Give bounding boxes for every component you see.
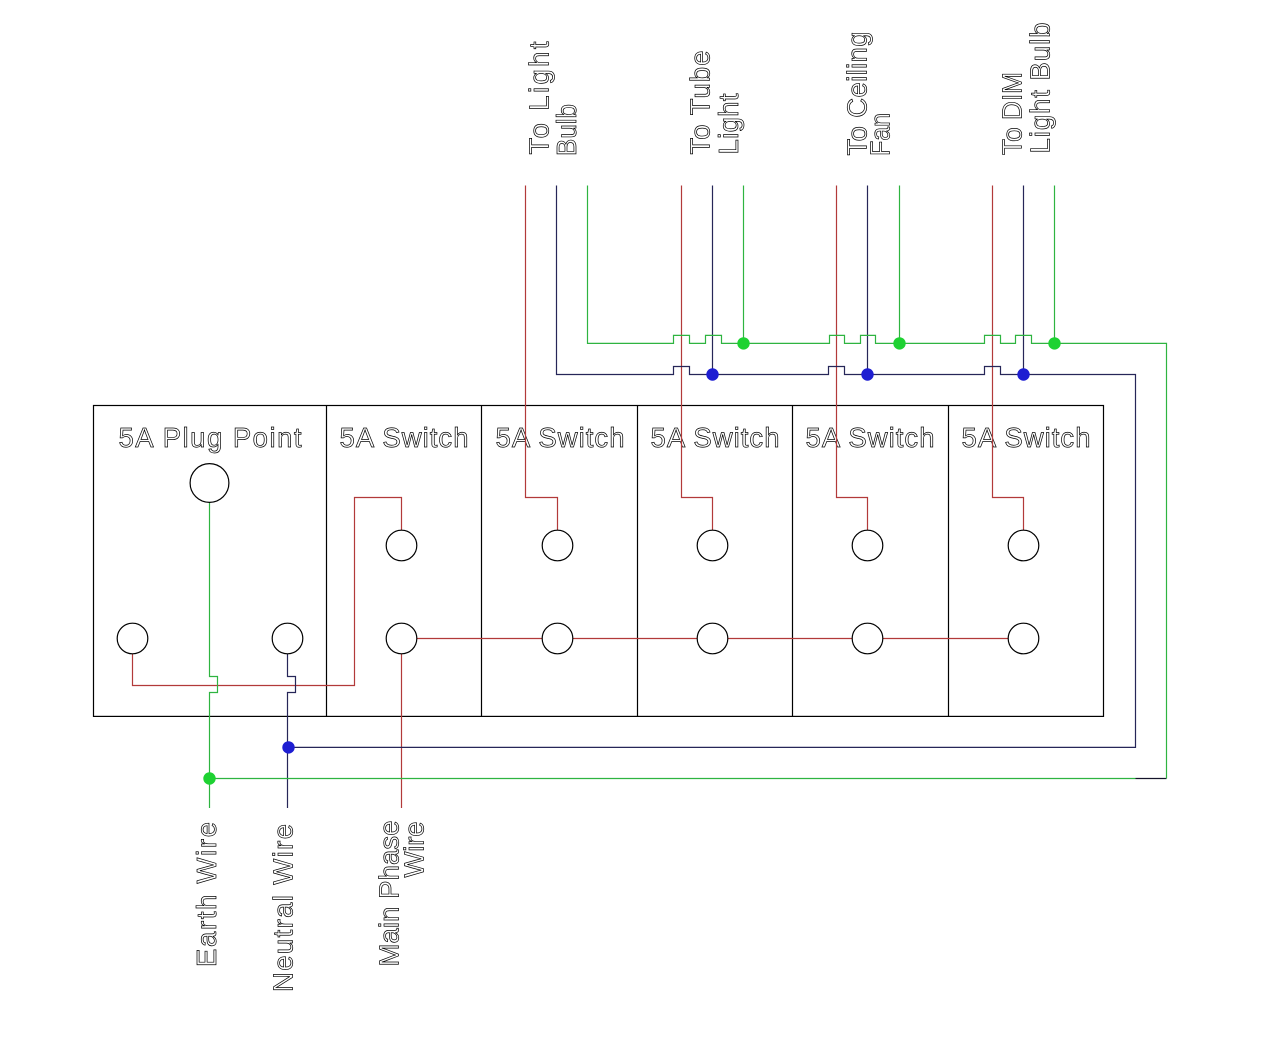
dark joining segment bottom right [1136,778,1167,780]
junction dot blue group 3 [861,368,873,380]
panel divider 2 [481,406,483,717]
plug point earth terminal (big circle) [190,464,229,503]
junction dot neutral bottom [282,741,294,753]
switch 2 top terminal [542,530,573,561]
svg-text:Earth Wire: Earth Wire [191,822,222,967]
switch 3 bottom terminal [697,623,728,654]
svg-text:5A Switch: 5A Switch [340,422,469,453]
switchboard outer box [94,406,1104,717]
earth drop wire group 2 (green) [743,186,745,344]
switch 4 bottom terminal [852,623,883,654]
earth bottom bus (green) [210,778,1136,780]
panel divider 4 [792,406,794,717]
svg-text:5A Switch: 5A Switch [962,422,1091,453]
junction dot earth bottom [203,772,215,784]
svg-text:Bulb: Bulb [551,104,582,156]
panel divider 5 [948,406,950,717]
svg-text:To Light: To Light [524,41,555,154]
earth bus (green) with hops over red and blue wires [588,186,1167,779]
junction dot green group 3 [893,337,905,349]
svg-text:Fan: Fan [865,113,896,156]
neutral drop wire group 2 (blue) [712,186,714,375]
earth drop wire group 4 (green) [1054,186,1056,344]
svg-text:Wire: Wire [399,822,430,878]
main phase wire (red, bottom) [401,654,403,809]
phase drop wire to tube light (red, group 2) [682,186,713,531]
svg-text:5A Switch: 5A Switch [496,422,625,453]
panel divider 1 [326,406,328,717]
switch 4 top terminal [852,530,883,561]
svg-text:To Tube: To Tube [685,51,716,155]
svg-text:Light: Light [713,93,744,154]
svg-text:5A Switch: 5A Switch [806,422,935,453]
phase wire to switch 1 (red riser inside box) [133,498,402,686]
switch 2 bottom terminal [542,623,573,654]
switch 5 bottom terminal [1008,623,1039,654]
svg-text:Neutral Wire: Neutral Wire [268,824,299,992]
phase drop wire to light bulb (red, group 1) [526,186,558,531]
svg-text:5A Plug Point: 5A Plug Point [119,422,302,453]
svg-text:To DIM: To DIM [997,72,1028,155]
panel divider 3 [637,406,639,717]
neutral drop wire group 3 (blue) [867,186,869,375]
junction dot blue group 4 [1017,368,1029,380]
plug point phase terminal (circle) [117,623,148,654]
svg-text:5A Switch: 5A Switch [651,422,780,453]
junction dot green group 4 [1048,337,1060,349]
phase drop wire to ceiling fan (red, group 3) [837,186,868,531]
earth drop wire group 3 (green) [899,186,901,344]
plug point neutral terminal (circle) [272,623,303,654]
phase drop wire to DIM light bulb (red, group 4) [993,186,1024,531]
neutral wire from plug point (blue, hops over red bus) [288,654,296,809]
svg-text:Light Bulb: Light Bulb [1025,23,1056,154]
switch 5 top terminal [1008,530,1039,561]
junction dot green group 2 [737,337,749,349]
switch 3 top terminal [697,530,728,561]
earth wire from plug point (green, hops over red bus) [210,502,218,808]
neutral drop wire group 4 (blue) [1023,186,1025,375]
red bottom bus linking switch common terminals [402,638,1024,640]
neutral bus (blue) with hops over red wires [289,186,1136,748]
switch 1 top terminal [386,530,417,561]
switch 1 bottom terminal [386,623,417,654]
junction dot blue group 2 [706,368,718,380]
